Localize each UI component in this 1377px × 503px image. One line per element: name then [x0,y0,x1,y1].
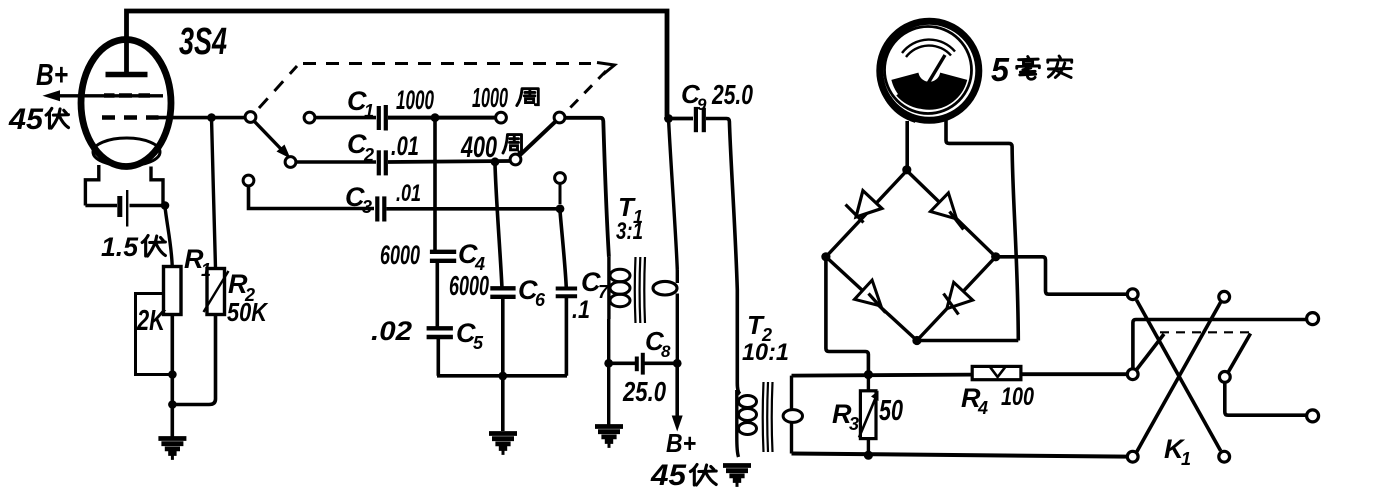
svg-text:.1: .1 [572,296,590,324]
label R3 [832,399,859,434]
svg-text:9: 9 [697,95,707,114]
svg-text:3:1: 3:1 [616,218,643,245]
wire C9 junction down to T1 secondary [669,119,678,271]
wire pole2 to T1 primary [565,118,609,257]
transformer T2 primary winding [737,390,757,457]
tube socket / filament frame [85,165,163,206]
label 45 fu bottom [650,459,716,492]
wire T1 primary bottom to C8 [607,319,610,426]
capacitor C5 .02 [427,328,453,337]
label 6000 C6 [449,270,489,301]
capacitor C8 25.0 [610,353,677,375]
node bridge right [991,252,1000,261]
switch K1 blade at C [1136,334,1164,370]
wire meter left to bridge top [905,121,909,168]
node R3 top junction [864,370,873,379]
node C2 row junction [491,157,500,166]
node bridge bottom [912,336,921,345]
wire K1 D to output H [1225,383,1306,416]
capacitor C1 1000 [379,105,386,131]
node R1/2K tap [168,370,177,379]
label .1 [572,296,590,324]
switch K1 contact C [1127,369,1138,380]
label .01 value C3 [396,180,421,207]
svg-text:2: 2 [363,145,374,165]
contact C3 row left [243,175,254,186]
node C1 row junction [431,113,440,122]
svg-text:6000: 6000 [449,270,489,301]
svg-text:25.0: 25.0 [711,79,753,110]
contact C1 row left [304,112,315,123]
svg-text:.01: .01 [391,131,419,161]
node C9 junction on top bus drop [664,114,673,123]
svg-text:45: 45 [650,459,687,492]
label R4 [961,383,988,418]
label .02 [371,316,412,346]
label 10:1 [742,339,789,366]
transformer T2 secondary winding [783,376,802,454]
meter scale arcs [902,40,955,57]
output terminal H [1307,410,1319,422]
node C6 bottom bus [498,372,507,381]
svg-text:100: 100 [1001,383,1034,411]
wire R1 bottom to ground [171,315,175,438]
capacitor C9 25.0 [671,107,704,132]
svg-text:.02: .02 [371,316,412,346]
node C8 left [604,359,613,368]
svg-text:3: 3 [849,414,859,434]
wire grid to switch [150,116,246,120]
svg-text:B+: B+ [36,57,68,92]
battery B1 1.5V [85,190,165,227]
tube plate [106,72,148,78]
node R1/R2 bottom [168,400,177,409]
wire bridge left down to R3 junction [826,257,869,372]
2K tap bracket [136,294,171,375]
label K1 [1164,434,1191,469]
contact 1000zhou [496,112,507,123]
tube control grid (dashed) [102,115,159,120]
transformer T1 core [635,257,645,323]
label 100 [1001,383,1034,411]
label 2K [136,305,166,337]
svg-text:1000: 1000 [396,85,434,115]
svg-text:400: 400 [460,131,497,164]
ground under T2 primary [723,466,751,485]
wire C9 to T2 primary [706,119,740,395]
wire C3 row [249,186,375,209]
label 400 zhou (400 cycles) [460,131,521,164]
switch S1 pole2 common contact [554,112,565,123]
label C1 [347,86,374,121]
label 1000 value [396,85,434,115]
svg-text:2K: 2K [136,305,166,337]
wire C1 to contact [388,116,496,120]
switch gang dashed coupling [259,63,615,114]
tube bottom dome [93,138,160,166]
B+ arrow lead (screen supply) [43,90,164,101]
wire T1 secondary bottom B+ feed with arrow [672,363,683,431]
rail T2 secondary top to R4 [792,375,973,376]
ground under C6 [489,434,517,453]
label .01 value [391,131,419,161]
bottom bus wire [437,374,567,378]
wire top bus from tube plate to C9 junction [127,11,668,116]
meter M1 (5 mA) body [880,21,979,120]
svg-text:50K: 50K [227,297,269,327]
svg-text:5: 5 [473,333,484,353]
tube screen grid (dashed) [104,93,150,98]
label C7 [581,267,609,302]
switch K1 crossed arm A-F [1137,300,1221,451]
node R3 bottom [864,451,873,460]
capacitor C3 .01 [377,196,384,221]
node C8 right [673,359,682,368]
label C5 [456,318,484,353]
wire to C1 [315,116,376,120]
node bridge top [902,165,911,174]
wire C1 junction down through C4 C5 [435,120,438,376]
wire C3 to junction [387,207,561,211]
ground under R1/R2 [158,439,186,458]
diode bridge arms [826,171,996,341]
wire C2 junction down through C6 [495,164,503,431]
capacitor C6 6000 [490,288,515,297]
transformer T1 secondary winding [653,270,677,361]
diode D4 bottom-right arm [944,282,973,314]
svg-text:B+: B+ [666,428,696,458]
switch S1 pole1 common contact [245,112,256,123]
svg-text:25.0: 25.0 [622,376,666,407]
label 6000 C4 [380,240,420,270]
bottom rail T2 to K1 contact E [792,454,1128,457]
label B+ [36,57,68,92]
diode D3 bottom-left arm [855,280,886,312]
transformer T1 label [618,192,643,227]
label 45 fu (45 volts) [8,103,68,136]
switch K1 contact A [1127,289,1138,300]
transformer T2 label [747,310,772,345]
label B+ bottom [666,428,696,458]
node battery to R1 [161,201,170,210]
wire meter right to bridge bottom [917,117,1018,341]
diode D1 top-left arm [846,191,882,223]
diode D2 top-right arm [930,193,963,230]
switch K1 contact B [1219,291,1230,302]
switch S1 pole2 blade [520,122,556,156]
label R1 [184,244,211,280]
svg-text:.01: .01 [396,180,421,207]
svg-text:1: 1 [364,101,374,121]
node C3 row junction [556,204,565,213]
label 50 [879,395,903,427]
svg-text:50: 50 [879,395,903,427]
capacitor C2 .01 [379,150,386,175]
switch K1 dashed coupling [1160,331,1251,333]
label 3:1 [616,218,643,245]
label C8 [645,326,671,361]
svg-text:6000: 6000 [380,240,420,270]
ground under C8 left [595,427,623,446]
wire bridge right to K1 contact A [996,257,1127,294]
svg-text:6: 6 [535,290,546,310]
label 50K [227,297,269,327]
meter needle [920,55,945,95]
node junction at R2 tap [207,113,216,122]
label C2 [347,129,374,165]
svg-text:10:1: 10:1 [742,339,789,366]
svg-text:4: 4 [977,398,988,418]
svg-text:1: 1 [1181,449,1191,469]
svg-text:8: 8 [661,342,671,361]
label 5 hao-an (5 milliamps) [991,51,1072,88]
svg-text:1000: 1000 [472,82,508,113]
label C6 [518,275,546,310]
switch K1 contact F [1219,451,1230,462]
svg-text:3S4: 3S4 [179,21,227,63]
svg-text:45: 45 [8,103,44,136]
wire R2 bottom [175,315,216,405]
resistor R4 100 [972,366,1021,379]
node bridge left [821,252,830,261]
resistor R2 (variable) [204,269,229,315]
vacuum tube V1 3S4 envelope [81,40,171,167]
label 25.0 C9 [711,79,753,110]
wire R4 to K1 contact C [1021,372,1127,376]
label R2 [228,269,255,305]
label 3S4 [179,21,227,63]
wire C3 junction down through C7 [560,211,566,376]
contact C3 row right [555,173,566,204]
label 25.0 C8 [622,376,666,407]
wire R2 top from grid node [212,118,216,268]
label 1.5 fu [101,232,165,262]
wire battery node to R1 [165,207,172,266]
transformer T1 primary winding [609,257,630,319]
resistor R3 (variable) 50 [859,375,879,455]
switch K1 crossed arm B-E [1137,302,1221,452]
contact C2 row left [285,157,296,168]
label C3 [345,182,372,217]
label 1000 zhou (1000 cycles) [472,82,538,113]
capacitor C4 6000 [430,252,456,261]
wire to C2 [296,160,376,164]
wire K1 C to output G [1133,320,1307,369]
wire C2 to contact [388,161,511,162]
label C9 [681,79,707,114]
switch K1 contact E [1127,451,1138,462]
contact 400zhou [510,154,521,165]
meter dark lower sector [893,74,966,109]
svg-text:3: 3 [362,197,372,217]
svg-text:5: 5 [991,51,1010,88]
svg-text:1.5: 1.5 [101,232,139,262]
output terminal G [1307,313,1319,325]
transformer T2 core [763,382,773,452]
switch S1 pole1 blade with arrow [255,122,291,159]
switch K1 contact D [1219,372,1230,383]
label C4 [458,239,485,274]
resistor R1 [164,267,182,315]
capacitor C7 .1 [556,289,577,297]
switch K1 blade at D [1228,334,1251,373]
